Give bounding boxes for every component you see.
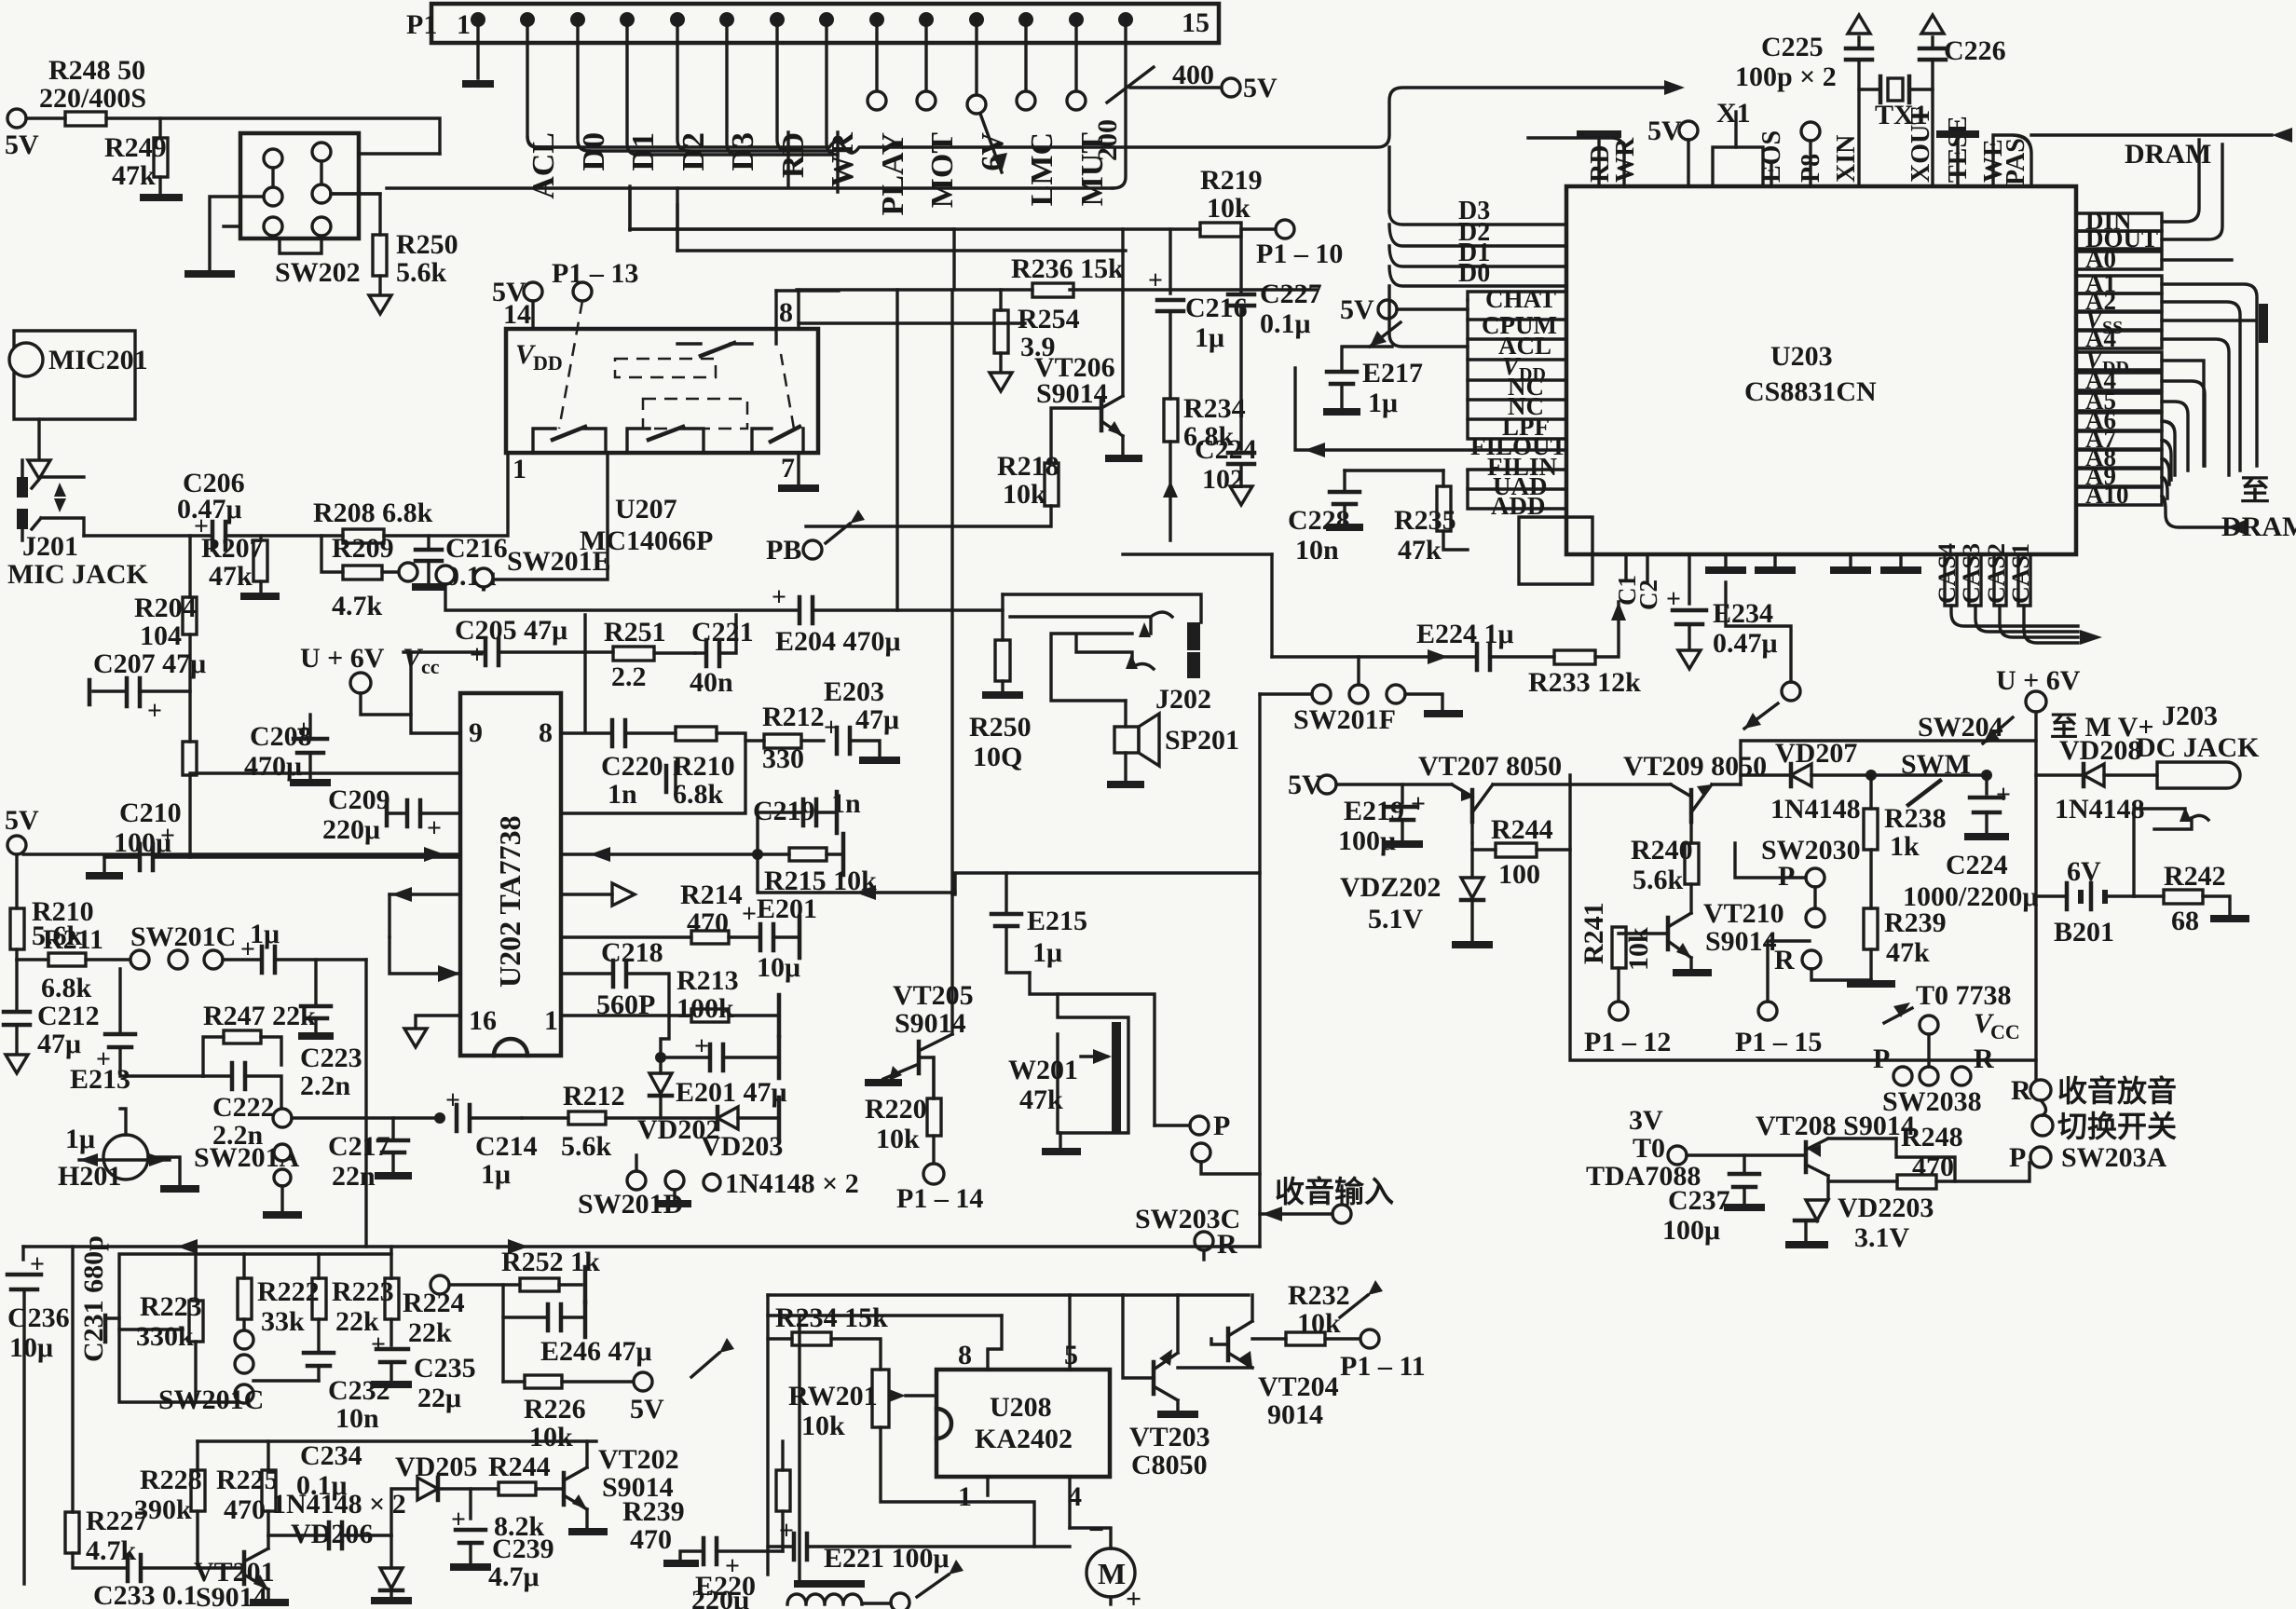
wire mic signal [84,534,212,537]
svg-text:1μ: 1μ [1368,388,1398,418]
U203 right pin DOUT [2076,144,2222,252]
diode VD208 [2036,735,2157,825]
capacitor C235 [371,1330,476,1413]
capacitor C216 (0.1u) [412,533,508,592]
svg-text:15: 15 [1182,7,1209,38]
svg-text:6V: 6V [2067,856,2101,887]
wire U208 top rows [768,1295,1249,1316]
svg-text:C212: C212 [37,1001,100,1031]
svg-text:470: 470 [687,907,729,938]
U203 right pin Vdd [2076,346,2204,466]
svg-text:9: 9 [469,717,483,748]
terminal U+6V Vcc [300,643,440,715]
svg-text:330k: 330k [136,1321,194,1352]
switch SW2030 [1735,835,1871,980]
svg-text:47k: 47k [209,561,253,592]
svg-text:R248: R248 [1901,1122,1963,1152]
svg-text:R239: R239 [622,1496,685,1527]
U202 pin16 ground [404,1016,460,1047]
svg-text:D3: D3 [726,132,760,171]
resistor R207 [201,533,280,596]
svg-text:5V: 5V [492,277,526,307]
svg-text:C8050: C8050 [1131,1450,1208,1480]
svg-text:CC: CC [1990,1020,2020,1043]
jack J203 DC JACK [2136,701,2260,788]
svg-text:R: R [1974,1043,1994,1074]
svg-text:+: + [772,583,786,612]
svg-text:J201: J201 [22,531,78,562]
svg-text:C207 47μ: C207 47μ [93,648,206,679]
transistor VT207 8050 [1418,751,1570,843]
svg-text:C222: C222 [212,1092,275,1123]
svg-text:R248 50: R248 50 [48,55,145,86]
DC jack switch contact [2134,807,2208,896]
svg-text:J202: J202 [1155,684,1211,715]
U203 right pin A8 [2076,443,2169,484]
wire data bus from connector [527,88,1673,153]
resistor R225 470 [216,1441,279,1535]
svg-text:10k: 10k [1623,927,1654,971]
U202 left row y960 arrow [389,887,460,937]
U202 right row y960 triangle [561,854,955,906]
capacitor C222 [203,1063,281,1151]
svg-text:+: + [371,1330,386,1359]
svg-text:CAS3: CAS3 [1958,543,1985,604]
capacitor C217 [328,1118,412,1192]
svg-text:B201: B201 [2054,917,2114,948]
svg-text:5V: 5V [630,1394,664,1425]
switch SW202 [184,133,440,288]
svg-text:P1 – 13: P1 – 13 [552,258,638,289]
decoupling grounds below U203 [1705,554,1921,570]
svg-text:C237: C237 [1668,1185,1730,1216]
svg-text:C216: C216 [1185,293,1248,323]
svg-text:P1 – 11: P1 – 11 [1340,1351,1426,1382]
resistor R250 (5.6k) [331,194,458,314]
svg-text:P: P [1213,1111,1230,1141]
wiper contact + arrow to SW204 box [1726,582,1800,729]
capacitor C209 [322,784,460,845]
U203 left pin ADD [1468,489,1566,520]
U203 bottom sub-box ADD [1519,517,1592,584]
svg-text:1μ: 1μ [481,1159,511,1190]
svg-text:5.6k: 5.6k [561,1131,612,1162]
svg-text:E234: E234 [1713,598,1773,629]
capacitor E234 [1666,554,1778,669]
wire bus rows to mid column [630,227,1200,230]
U203 right pin A1 [2076,269,2257,466]
svg-text:6.8k: 6.8k [41,973,92,1003]
terminal 5V top-left [5,109,65,160]
resistor R241 [1578,902,1671,1057]
svg-text:WR: WR [1611,137,1640,183]
wire top row vt201 section [198,1439,596,1442]
svg-text:VD206: VD206 [291,1519,373,1549]
battery B201 6V [2036,856,2134,948]
svg-text:P: P [1873,1043,1890,1074]
svg-text:6.8k: 6.8k [673,779,724,810]
svg-text:R208 6.8k: R208 6.8k [313,498,433,528]
capacitor C236 [7,1247,70,1584]
svg-text:PLAY: PLAY [876,132,910,215]
svg-text:1μ: 1μ [65,1124,95,1154]
svg-text:cc: cc [421,655,440,678]
svg-text:SW201C: SW201C [130,921,236,952]
svg-text:E217: E217 [1362,358,1423,389]
capacitor C216 (1u) [1148,229,1248,399]
svg-text:+: + [470,641,485,670]
resistor R249 [104,118,183,198]
capacitor C212 [4,960,100,1073]
capacitor C223 2.2n [298,960,362,1101]
capacitor C226 [1920,15,2006,89]
svg-text:CHAT: CHAT [1485,285,1556,313]
svg-text:VT203: VT203 [1129,1422,1210,1452]
terminal U+6V [1996,665,2081,1088]
svg-text:R222: R222 [257,1276,320,1307]
svg-text:R251: R251 [604,617,666,648]
svg-text:+: + [1126,1584,1141,1609]
svg-text:U + 6V: U + 6V [300,643,385,674]
svg-text:0.47μ: 0.47μ [1713,628,1778,659]
diode VD203 [701,1098,783,1162]
svg-text:10k: 10k [1003,479,1046,510]
switch SW203C [1135,1111,1260,1260]
svg-text:4.7μ: 4.7μ [488,1561,540,1592]
label TO 7738 Vcc [1884,980,2020,1067]
svg-text:R214: R214 [680,879,743,910]
svg-text:VT210: VT210 [1703,898,1784,929]
resistor R223 330k [136,1254,203,1402]
svg-text:SP201: SP201 [1165,725,1239,756]
resistor R252 1k + E246 [430,1247,652,1382]
U203 right pin A10 [2076,481,2246,535]
svg-text:10k: 10k [529,1422,573,1452]
resistor R234 (6.8k) [1163,393,1246,540]
svg-text:P1 – 10: P1 – 10 [1256,239,1343,269]
svg-text:DD: DD [533,351,563,375]
svg-text:T0: T0 [1633,1133,1665,1164]
svg-text:47k: 47k [1398,535,1442,566]
svg-text:R209: R209 [332,533,394,564]
svg-text:1: 1 [958,1481,972,1512]
svg-text:+: + [427,814,442,843]
svg-text:R219: R219 [1200,165,1263,196]
capacitor E204 [772,583,1003,657]
terminal P1-13 [552,258,638,429]
capacitor C234 [268,1440,391,1548]
svg-text:至: 至 [2240,473,2270,507]
svg-text:1N4148 × 2: 1N4148 × 2 [725,1168,859,1199]
svg-text:C226: C226 [1944,35,2006,66]
svg-text:R: R [1774,945,1795,975]
U203 right pin A4 [2076,324,2229,475]
svg-text:470: 470 [1912,1152,1954,1182]
svg-text:D2: D2 [676,132,711,171]
resistor R215 [752,834,877,896]
svg-text:P1: P1 [406,9,437,40]
svg-text:SW201F: SW201F [1293,704,1396,735]
wire pin1 to VD202 [561,1016,669,1057]
capacitor E213 [70,969,203,1095]
U203 right pin A4b [2076,366,2205,466]
svg-text:VD208: VD208 [2059,735,2141,766]
U203 left pin CHAT [1468,285,1566,313]
svg-text:5V: 5V [1340,294,1374,325]
IC U202 TA7738 [460,693,561,1056]
svg-text:R236 15k: R236 15k [1011,253,1124,284]
wire R236 row [797,288,1032,291]
svg-text:10Q: 10Q [973,742,1022,772]
200 / 400 marking [1092,60,1278,161]
U202 right row y1006 (R214) [561,879,760,944]
svg-text:MIC201: MIC201 [48,345,148,375]
svg-text:C217: C217 [328,1131,390,1162]
svg-text:H201: H201 [58,1161,121,1192]
U207 internal switch 1 [533,427,606,453]
svg-text:10k: 10k [876,1124,920,1154]
svg-text:22μ: 22μ [417,1383,461,1413]
svg-text:0.47μ: 0.47μ [177,494,242,525]
svg-text:3V: 3V [1629,1105,1663,1136]
svg-text:220/400S: 220/400S [39,83,146,114]
U207 internal switch 4 [752,354,803,453]
capacitor E203 47u [824,676,900,760]
svg-text:C223: C223 [300,1043,362,1073]
svg-text:3.1V: 3.1V [1854,1222,1910,1253]
label radio input [1260,1175,1394,1223]
svg-text:+: + [779,1517,794,1546]
svg-text:CAS4: CAS4 [1934,543,1961,604]
U203 left pin ACL [1468,320,1566,360]
capacitor C206 [177,468,343,550]
svg-text:R233 12k: R233 12k [1528,667,1641,698]
svg-text:22k: 22k [408,1317,452,1348]
capacitor C233 [93,1555,244,1609]
svg-text:200: 200 [1092,119,1123,161]
svg-text:0.1μ: 0.1μ [1260,308,1311,339]
capacitor C224 1000/2200u [1903,770,2038,912]
svg-text:收音放音: 收音放音 [2057,1074,2177,1108]
svg-text:33k: 33k [261,1306,305,1337]
svg-text:5.6k: 5.6k [396,257,447,288]
resistor R204 (104) [134,536,197,857]
nodes C1 C2 below U203 [1613,554,1662,610]
potentiometer W201 [1008,973,1155,1152]
resistor R210 6.8k [561,727,745,813]
svg-text:SW202: SW202 [275,257,361,288]
svg-text:U202 TA7738: U202 TA7738 [493,815,526,988]
wire SW201A row to C214 [292,1116,440,1119]
resistor R244 100 [1472,814,1570,890]
svg-text:VT205: VT205 [893,980,974,1011]
svg-text:VT204: VT204 [1258,1371,1339,1402]
svg-text:KA2402: KA2402 [975,1424,1073,1454]
wire speaker top to E224 row [1270,554,1273,657]
switch SW201D [578,1155,691,1220]
svg-text:R247 22k: R247 22k [203,1001,316,1031]
svg-text:W201: W201 [1008,1055,1078,1085]
svg-text:C225: C225 [1761,32,1824,62]
svg-text:VT202: VT202 [598,1444,679,1475]
capacitor E220 [663,1538,783,1609]
svg-text:8: 8 [958,1340,972,1370]
switch SW201A [194,1109,302,1215]
svg-text:10n: 10n [1295,535,1339,566]
resistor R208 [313,453,508,543]
U203 right pin A6 [2076,406,2175,475]
pin 8 wire + C220 [561,652,676,810]
box SW204 section [1741,741,2036,784]
resistor R210 5.6k [10,896,94,960]
U203 left pin LPF [1468,400,1566,441]
U202 right pin row y917 (R215 wire) [561,847,758,862]
capacitor C208 [244,715,331,783]
resistor R250 10ohm [969,640,1032,772]
svg-text:D0: D0 [577,132,611,171]
svg-text:RD: RD [776,132,811,178]
resistor R247 [203,1001,316,1076]
svg-text:R238: R238 [1884,803,1947,834]
resistor R212 5.6k [522,1081,717,1162]
vertical main wire x1022 [950,290,953,894]
resistor R238 [1864,770,1947,908]
terminal 5V (U203 left) [1340,294,1468,347]
svg-text:E203: E203 [824,676,884,707]
resistor R218 [806,408,1101,526]
svg-text:CAS2: CAS2 [1983,543,2010,604]
svg-text:47k: 47k [1019,1084,1063,1115]
svg-text:收音输入: 收音输入 [1275,1175,1394,1208]
svg-text:D1: D1 [626,132,661,171]
svg-text:C216: C216 [445,533,508,564]
svg-text:MC14066P: MC14066P [580,525,713,556]
U203 right pin A9 [2076,462,2167,498]
svg-text:5V: 5V [5,805,39,836]
svg-text:10k: 10k [1207,193,1250,224]
resistor R244 8.2k [488,1452,564,1542]
capacitor C207 [89,648,206,726]
svg-text:S9014: S9014 [895,1008,966,1039]
svg-text:220μ: 220μ [322,814,380,845]
svg-text:400: 400 [1172,60,1214,90]
svg-text:470: 470 [630,1524,672,1555]
speaker SP201 [1107,701,1239,784]
capacitor E221 [768,1517,1070,1574]
U203 right pin A2 [2076,287,2240,470]
resistor R226 + 5V [503,1338,734,1452]
svg-text:8: 8 [539,717,553,748]
svg-text:5.6k: 5.6k [1633,865,1684,895]
transistor VT210 [1619,898,1784,973]
svg-text:9014: 9014 [1267,1399,1323,1430]
U203 bottom pin CAS2 [1983,543,2078,637]
svg-text:S9014: S9014 [1036,378,1108,409]
svg-text:2.2n: 2.2n [300,1070,351,1101]
U203 right pin Vss [2076,304,2268,343]
crystal TX1 [1875,76,1928,130]
svg-text:SW203A: SW203A [2061,1142,2167,1173]
terminal P1-15 [1735,941,1822,1057]
resistor R242 68 [2134,861,2249,936]
svg-text:100p × 2: 100p × 2 [1735,61,1837,92]
svg-text:1N4148 × 2: 1N4148 × 2 [272,1489,406,1520]
U207 internal switch 2 [627,399,747,453]
open contacts under PLAY..MUT [868,91,1086,114]
svg-text:P1 – 12: P1 – 12 [1584,1027,1671,1057]
svg-text:10μ: 10μ [757,952,800,983]
svg-text:C209: C209 [328,784,390,815]
svg-text:+: + [1148,266,1163,295]
network box [119,1254,391,1402]
jack J201 MIC JACK [7,460,148,590]
P1 pin 1 wire [476,20,479,78]
crystal X1 sub-box [1713,98,1763,186]
svg-text:C224: C224 [1195,434,1257,465]
svg-text:D0: D0 [1458,259,1490,288]
svg-text:22n: 22n [332,1161,376,1192]
svg-text:M: M [1098,1557,1126,1590]
resistor R223b 22k [312,1254,394,1353]
capacitor E219 [1338,784,1426,856]
U203 left pin UAD [1468,470,1566,500]
svg-text:C218: C218 [601,937,663,968]
U202 left pin row y830 [190,771,460,774]
svg-text:R244: R244 [1491,814,1553,845]
resistor R235 [1394,470,1468,566]
motor M [1070,1515,1141,1609]
svg-text:1000/2200μ: 1000/2200μ [1903,881,2038,912]
U203 left pin FILOUT [1295,368,1567,460]
U207 nested wires above [630,186,1126,344]
svg-text:104: 104 [140,620,182,651]
transistor VT208 [1586,1105,1915,1197]
resistor R211 [17,924,130,1003]
svg-text:E215: E215 [1027,906,1087,936]
resistor R213 [561,965,779,1036]
svg-text:C233 0.1: C233 0.1 [93,1580,198,1609]
capacitor E201 10u [742,893,817,983]
U203 bottom pin CAS4 [1934,543,2078,626]
label 1N4148x2 [704,1168,859,1199]
svg-text:C239: C239 [492,1534,554,1564]
svg-text:VT207 8050: VT207 8050 [1418,751,1562,782]
resistor R240 [1631,835,1699,913]
vertical from y246 bus down [952,229,955,290]
svg-text:LMC: LMC [1025,132,1059,206]
svg-text:1n: 1n [608,779,637,810]
svg-text:1: 1 [457,9,471,40]
svg-text:−: − [1088,1515,1104,1546]
pin 14 5V [492,277,542,329]
buzzer H201 [58,1109,199,1192]
svg-text:R250: R250 [396,229,458,260]
wire vertical x858 [798,1316,800,1584]
svg-text:E224 1μ: E224 1μ [1416,619,1514,649]
capacitor C210 [86,798,460,876]
svg-text:1μ: 1μ [1195,322,1224,353]
resistor R239 47k [1847,907,1947,984]
svg-text:10k: 10k [801,1411,845,1441]
op-amp U207 MC14066P box [503,297,818,556]
svg-text:5V: 5V [1243,73,1278,103]
svg-text:R234: R234 [1183,393,1246,424]
svg-text:68: 68 [2171,906,2199,936]
IC U203 CS8831CN [1566,186,2076,554]
U203 bottom pin CAS1 [2007,543,2102,645]
svg-text:390k: 390k [134,1494,192,1525]
resistor R212 330 [745,702,825,774]
